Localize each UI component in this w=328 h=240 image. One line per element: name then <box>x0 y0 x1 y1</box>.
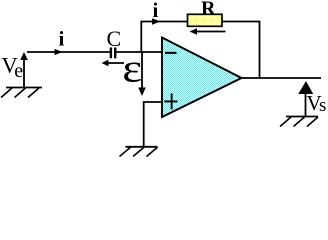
current arrow i (input wire) <box>55 49 63 55</box>
source arrow Ve <box>20 52 28 87</box>
minus input mark <box>165 52 177 54</box>
svg-text:e: e <box>14 60 23 82</box>
wire: feedback right vertical <box>259 22 261 79</box>
current arrow i (feedback, top wire) <box>152 18 161 24</box>
wire: capacitor to op-amp inverting input <box>116 51 162 53</box>
ground (non-inverting input) <box>120 147 158 157</box>
wire: feedback top (resistor to right corner) <box>222 21 260 23</box>
svg-text:ε: ε <box>122 47 142 91</box>
wire: feedback left vertical <box>140 22 142 53</box>
ground (under Vs) <box>280 117 318 127</box>
wire: main input (Ve to capacitor) <box>27 51 111 53</box>
voltage arrow epsilon (points down) <box>138 52 146 96</box>
voltage arrow across C (points left) <box>102 60 125 66</box>
op-amp U1 <box>162 38 242 118</box>
svg-text:R: R <box>201 0 216 20</box>
label Vs <box>307 91 327 116</box>
voltage arrow across R (points left) <box>190 28 226 34</box>
svg-text:i: i <box>153 0 159 22</box>
svg-text:C: C <box>107 26 122 51</box>
svg-text:i: i <box>59 27 65 51</box>
label Ve <box>2 53 24 83</box>
resistor R <box>188 14 223 26</box>
ground (under Ve) <box>1 88 42 98</box>
output arrow Vs <box>298 81 313 116</box>
wire: output <box>241 77 321 79</box>
capacitor C <box>110 48 117 59</box>
wire: feedback top (left segment to resistor) <box>140 21 187 23</box>
svg-text:s: s <box>319 95 326 116</box>
plus input mark <box>164 94 177 110</box>
wire: non-inverting input to ground <box>144 101 162 146</box>
